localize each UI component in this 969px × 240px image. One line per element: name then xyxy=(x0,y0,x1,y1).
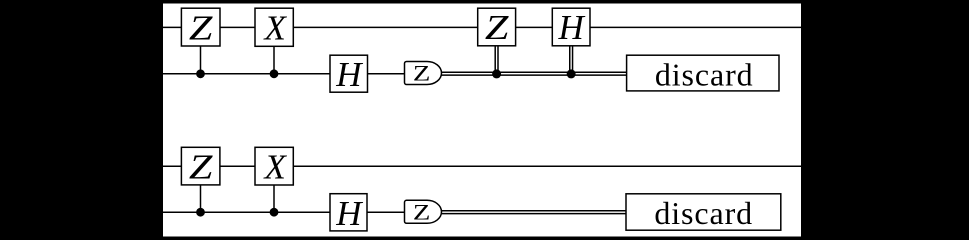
svg-text:H: H xyxy=(335,55,363,94)
svg-text:Z: Z xyxy=(413,200,431,225)
svg-text:discard: discard xyxy=(655,56,754,92)
svg-text:H: H xyxy=(335,194,363,233)
svg-text:X: X xyxy=(263,8,288,47)
svg-text:discard: discard xyxy=(654,195,753,231)
svg-text:Z: Z xyxy=(189,147,213,186)
svg-text:Z: Z xyxy=(413,61,431,86)
svg-text:Z: Z xyxy=(485,8,509,47)
svg-text:Z: Z xyxy=(189,8,213,47)
svg-text:H: H xyxy=(557,8,585,47)
svg-text:X: X xyxy=(263,147,288,186)
